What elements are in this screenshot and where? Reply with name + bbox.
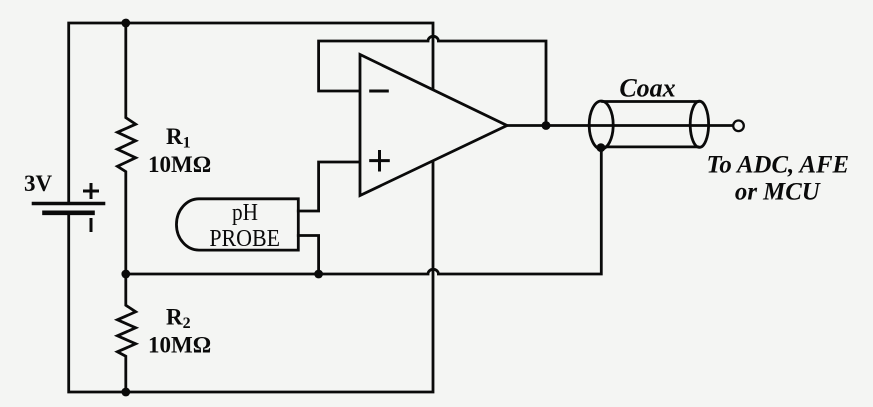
svg-text:10MΩ: 10MΩ bbox=[148, 332, 211, 357]
svg-text:PROBE: PROBE bbox=[209, 226, 280, 252]
svg-text:pH: pH bbox=[232, 200, 258, 226]
svg-text:3V: 3V bbox=[24, 171, 53, 196]
svg-text:Coax: Coax bbox=[619, 74, 675, 103]
svg-text:or MCU: or MCU bbox=[735, 179, 821, 206]
svg-text:To ADC, AFE: To ADC, AFE bbox=[706, 152, 849, 179]
svg-text:10MΩ: 10MΩ bbox=[148, 152, 211, 177]
